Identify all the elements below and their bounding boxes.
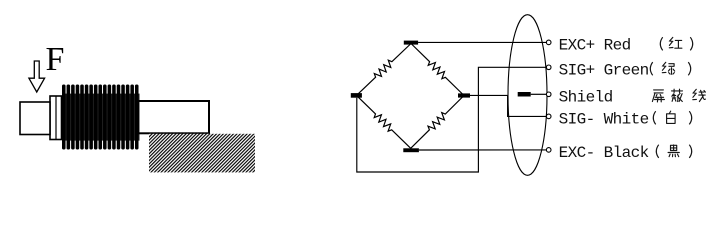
label (black) CJK: [656, 145, 658, 158]
force arrow: [29, 61, 45, 92]
svg-text:SIG+ Green: SIG+ Green: [559, 62, 649, 80]
wire SIG+ left pad down, along bottom, up to terminal: [357, 67, 547, 172]
terminal SIG+: [546, 65, 551, 70]
svg-text:EXC+ Red: EXC+ Red: [559, 37, 631, 55]
resistor R4 (bottom-right arm): [411, 96, 464, 149]
node pad top (EXC+): [404, 41, 418, 45]
wire EXC- bottom pad to terminal: [419, 149, 547, 151]
wire EXC+ top pad to terminal: [418, 41, 546, 43]
label shield CJK: [652, 90, 664, 102]
node pad bottom (EXC-): [403, 148, 419, 152]
terminal EXC+: [546, 40, 551, 45]
svg-text:F: F: [46, 41, 65, 78]
wire shield to terminal: [531, 93, 547, 95]
node pad left (SIG+): [351, 93, 362, 98]
label (green) CJK: [650, 62, 652, 75]
cable ellipse: [508, 15, 547, 176]
label (red) CJK: [660, 37, 662, 50]
resistor R3 (bottom-left arm): [357, 95, 411, 148]
resistor R1 (top-left arm): [357, 44, 412, 96]
svg-text:SIG- White: SIG- White: [559, 111, 649, 129]
shield pad: [518, 92, 531, 97]
svg-text:EXC- Black: EXC- Black: [559, 144, 649, 162]
threaded body of load cell: [62, 85, 140, 150]
terminal Shield: [546, 92, 551, 97]
wire SIG- right pad to terminal: [470, 95, 546, 116]
terminal SIG-: [546, 114, 551, 119]
collar inner line: [55, 96, 57, 140]
left shaft (loading end): [20, 102, 50, 135]
svg-text:Shield: Shield: [559, 89, 613, 107]
resistor R2 (top-right arm): [411, 44, 464, 96]
collar: [50, 96, 62, 140]
right mounting shaft: [138, 101, 209, 133]
label (white) CJK: [653, 111, 655, 124]
terminal EXC-: [546, 148, 551, 153]
hatched base block: [149, 134, 255, 173]
node pad right (SIG-): [458, 93, 470, 97]
